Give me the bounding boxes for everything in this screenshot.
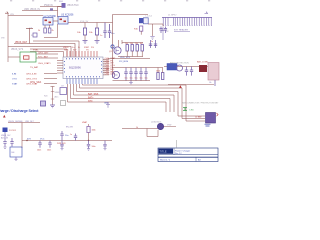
svg-text:U2 SY6280: U2 SY6280 — [44, 15, 57, 18]
wire U3 output rail — [68, 22, 113, 24]
wire to U2 — [8, 15, 43, 17]
capacitor C8 — [108, 24, 115, 38]
svg-text:BAT+: BAT+ — [88, 96, 94, 99]
svg-text:PG: PG — [91, 47, 94, 49]
svg-text:PWR IN: PWR IN — [44, 4, 53, 7]
svg-text:100k: 100k — [92, 130, 96, 132]
svg-text:VIN: VIN — [10, 14, 14, 16]
wire boost out — [148, 24, 163, 36]
ground — [83, 41, 88, 44]
svg-text:TS_BAT: TS_BAT — [30, 66, 39, 69]
ic U4 — [10, 147, 22, 160]
resistor RT1 inside — [24, 56, 30, 59]
power flag — [179, 85, 182, 88]
resistor R4 below U2 — [48, 25, 53, 33]
svg-text:10u: 10u — [140, 78, 143, 80]
connector J2 — [195, 113, 218, 127]
wire L1 feed — [33, 41, 79, 57]
svg-text:CHG_STAT1: CHG_STAT1 — [38, 62, 51, 65]
wire left vertical bus — [7, 13, 9, 62]
capacitor C24 — [159, 27, 162, 34]
svg-text:REG: REG — [64, 50, 69, 52]
battery connector J3 pink — [208, 63, 219, 81]
ic U3 — [58, 14, 74, 24]
wire GND stub below IC — [51, 87, 55, 106]
svg-text:Sheet 1 / 1: Sheet 1 / 1 — [160, 159, 171, 162]
svg-text:CHG_DET: CHG_DET — [38, 53, 49, 55]
wire VSYS row — [14, 44, 75, 58]
wire battery negative — [214, 80, 216, 86]
svg-text:VBUS_SYS: VBUS_SYS — [11, 49, 24, 51]
svg-text:B-: B- — [210, 82, 212, 84]
sheet border column marks — [10, 0, 210, 2]
svg-text:NTC_BAT: NTC_BAT — [38, 56, 48, 59]
capacitor C2 — [30, 28, 38, 38]
wire bus from U1 bottom pins — [68, 84, 206, 121]
svg-text:VCC: VCC — [40, 138, 45, 140]
ground — [50, 105, 55, 108]
svg-text:USB_VBUS_IN: USB_VBUS_IN — [24, 9, 40, 11]
svg-text:10u: 10u — [145, 78, 148, 80]
inductor L1 — [143, 18, 148, 24]
capacitor C16 — [190, 67, 193, 76]
svg-text:4k7: 4k7 — [140, 43, 143, 45]
ic U2 — [43, 15, 56, 25]
svg-text:2k: 2k — [52, 30, 54, 32]
capacitor C7 — [100, 23, 107, 39]
wire SYS vertical right of IC — [112, 15, 114, 79]
wire lower of U2 — [44, 24, 58, 38]
ground — [95, 41, 100, 44]
svg-text:CHG_ILIM: CHG_ILIM — [26, 74, 37, 76]
ground — [4, 147, 7, 148]
svg-text:TITLE: TITLE — [160, 150, 167, 154]
svg-text:Charge / Discharge Select: Charge / Discharge Select — [0, 109, 39, 113]
LED D2 green — [183, 108, 194, 112]
svg-text:I2C_BUS: I2C_BUS — [119, 61, 129, 63]
svg-text:10k: 10k — [130, 43, 133, 45]
capacitor pair right — [149, 40, 157, 48]
power flag small — [3, 115, 6, 118]
wire VIN top — [40, 6, 62, 8]
svg-text:1u: 1u — [151, 41, 153, 43]
net flag VBUS — [5, 12, 8, 14]
wire VBAT row — [8, 47, 71, 58]
svg-text:10k: 10k — [135, 43, 138, 45]
svg-text:VSW: VSW — [167, 125, 172, 127]
svg-text:J2 BAT: J2 BAT — [195, 115, 202, 118]
svg-text:EXT HEADER: EXT HEADER — [174, 29, 188, 32]
svg-text:100n: 100n — [47, 150, 51, 152]
svg-text:BQ25896: BQ25896 — [69, 66, 81, 70]
svg-text:VBUS_DET: VBUS_DET — [15, 42, 28, 44]
capacitor C9 — [60, 86, 67, 95]
svg-text:10u: 10u — [130, 78, 133, 80]
capacitor C25 — [164, 27, 167, 34]
wire battery rail — [164, 66, 213, 68]
svg-text:D1 5V1: D1 5V1 — [9, 130, 17, 132]
resistor R3 below U2 — [38, 25, 46, 33]
svg-text:10u: 10u — [135, 78, 138, 80]
U1 top pin net labels — [63, 46, 94, 52]
wire I2C row — [108, 58, 150, 60]
node junction — [111, 45, 114, 48]
wire rows — [44, 73, 57, 75]
boost converter cluster top right — [134, 16, 167, 40]
svg-text:ADC_IN: ADC_IN — [1, 137, 9, 140]
wire — [4, 132, 6, 141]
wire to boost section — [113, 14, 149, 16]
bus net labels — [88, 93, 99, 103]
capacitor C17 — [3, 142, 6, 147]
svg-text:VREF: VREF — [55, 92, 61, 94]
svg-text:VDD_3V3: VDD_3V3 — [120, 57, 131, 59]
svg-text:1k: 1k — [136, 127, 138, 129]
ground — [150, 37, 154, 40]
svg-text:STAT: STAT — [12, 83, 18, 86]
power tap T — [26, 28, 33, 43]
green group box charge detect — [8, 52, 36, 62]
svg-text:Q4 AO3401: Q4 AO3401 — [151, 121, 162, 124]
svg-text:10k: 10k — [125, 43, 128, 45]
svg-text:1u: 1u — [70, 134, 72, 136]
wire U2 to U3 — [53, 20, 58, 22]
resistor pair right R14 R15 — [150, 68, 164, 80]
node rows to U1 left — [12, 74, 38, 86]
svg-text:VBAT: VBAT — [82, 121, 88, 124]
svg-text:R2: R2 — [31, 35, 33, 37]
U1 bottom pin stubs — [67, 79, 97, 85]
capacitor C18 — [10, 138, 13, 147]
transistor Q2 — [106, 69, 120, 79]
resistor bank R10-R13 — [118, 43, 143, 57]
svg-text:U3 XC6206: U3 XC6206 — [61, 14, 74, 17]
wire 3V3 rail — [22, 140, 64, 142]
wire stub — [176, 140, 178, 148]
svg-text:D-: D- — [78, 47, 80, 49]
diode D3 — [139, 18, 143, 23]
title block — [158, 148, 218, 162]
U1 right pin stubs and labels — [103, 60, 109, 75]
svg-text:VIN: VIN — [1, 38, 5, 40]
svg-text:USB_DET: USB_DET — [25, 121, 35, 123]
resistor R16 — [140, 26, 143, 31]
op-amp U1 charger IC body — [63, 57, 103, 79]
wire — [8, 122, 40, 124]
svg-text:EN_SW: EN_SW — [66, 127, 73, 129]
capacitor C30 below rail — [103, 141, 106, 150]
svg-text:2k: 2k — [38, 30, 40, 32]
capacitor C22 — [48, 141, 51, 148]
resistor R21 — [82, 121, 96, 141]
ferrite bead FB1 — [62, 3, 66, 8]
wire from green box — [36, 53, 58, 55]
pin header J1 top right — [162, 12, 212, 32]
svg-text:OTG: OTG — [12, 79, 17, 81]
svg-text:10u: 10u — [125, 78, 128, 80]
resistor R6 — [89, 23, 99, 41]
capacitor C19 — [38, 141, 41, 148]
capacitor C15 — [185, 67, 188, 76]
wire rail extension — [64, 140, 112, 142]
svg-text:100n: 100n — [92, 146, 96, 148]
svg-text:STAT: STAT — [84, 46, 90, 49]
capacitor C29 below rail — [87, 141, 96, 151]
svg-text:J1 GPIO: J1 GPIO — [168, 15, 177, 17]
diode D1 — [3, 128, 8, 133]
charger IC U1 top pin stubs — [67, 51, 97, 57]
transistor Q1 — [109, 40, 122, 54]
svg-text:GND: GND — [104, 102, 109, 104]
wire gate network — [122, 129, 158, 137]
svg-text:SW: SW — [73, 50, 76, 52]
capacitor C27 — [74, 134, 77, 141]
svg-text:CHG_QON: CHG_QON — [105, 74, 116, 76]
svg-text:NTC: NTC — [88, 101, 93, 103]
svg-text:CHG_SDA: CHG_SDA — [30, 81, 42, 84]
capacitor bank C10-C14 — [113, 68, 151, 84]
U1 left pin stubs — [57, 61, 63, 74]
ic U5 protection — [167, 64, 177, 71]
transistor Q3 — [177, 65, 183, 71]
svg-text:PSEL: PSEL — [33, 50, 39, 52]
wire from FB1 down to U3 — [57, 7, 59, 18]
wire stub below header — [162, 27, 165, 40]
svg-text:BAT_SNS: BAT_SNS — [88, 93, 99, 96]
svg-text:BAT CONNECTOR / PROTECTION NET: BAT CONNECTOR / PROTECTION NET — [182, 102, 219, 105]
svg-text:BAT_CONN: BAT_CONN — [197, 60, 208, 63]
wire USB input — [22, 10, 58, 12]
svg-text:100n: 100n — [37, 150, 41, 152]
capacitor C21 — [61, 101, 66, 106]
capacitor C28 below rail — [60, 141, 63, 150]
transistor Q4 — [151, 121, 176, 130]
svg-text:PWR_3V3: PWR_3V3 — [57, 143, 65, 145]
capacitor C23 — [60, 131, 63, 141]
resistor R5 — [77, 23, 87, 41]
svg-text:SYS_5V: SYS_5V — [80, 21, 89, 23]
svg-text:1u: 1u — [100, 35, 102, 37]
node mark on usb line — [50, 8, 53, 10]
svg-text:ILIM: ILIM — [12, 74, 16, 76]
ground mid bus — [106, 102, 110, 107]
svg-text:R20: R20 — [44, 96, 47, 98]
fuse F1 red block — [199, 65, 207, 72]
capacitor C20 — [41, 101, 46, 106]
svg-text:L1 2u2: L1 2u2 — [146, 16, 153, 18]
svg-text:ADC: ADC — [55, 96, 60, 99]
svg-text:CHG_OTG: CHG_OTG — [26, 79, 37, 81]
svg-text:LED: LED — [190, 109, 195, 111]
svg-text:VBUS 5V0: VBUS 5V0 — [67, 4, 79, 7]
